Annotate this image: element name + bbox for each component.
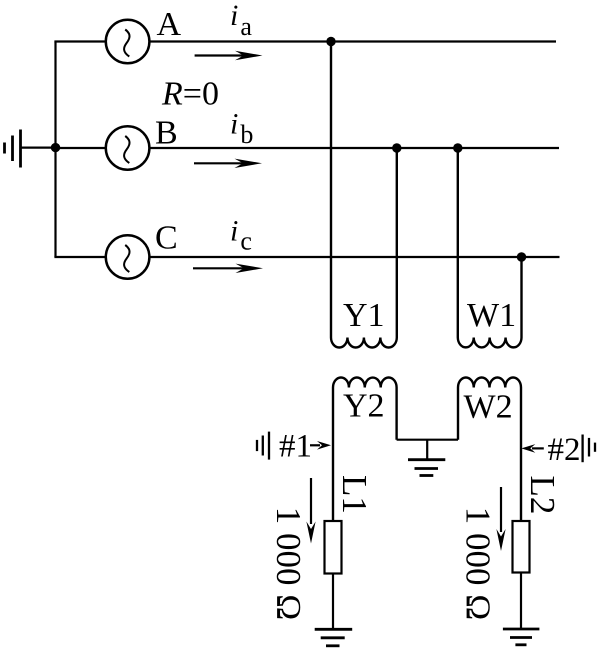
ground (secondary common) [408,460,445,476]
svg-text:1 000 Ω: 1 000 Ω [269,507,308,621]
arrow current ic [193,264,263,273]
probe marker #2 (mini ground bars) [583,435,595,463]
wire bus to source C [54,256,106,258]
winding Y2 (secondary coil) [333,378,397,522]
svg-text:L1: L1 [335,475,374,514]
svg-text:#2: #2 [548,432,581,468]
junction dot phase C / W1 [517,252,526,261]
svg-text:A: A [157,6,182,43]
source B (AC source) [106,126,150,170]
wire Y2 to W2 common [397,439,458,441]
winding W2 (secondary coil) [458,378,521,522]
winding W1 (wattmeter W1 coil) [458,148,522,347]
wire bus to source B [54,147,106,149]
arrow current ia [195,51,263,60]
wire neutral bus vertical [54,42,56,258]
arrow probe #2 [521,444,544,453]
junction dot neutral bus [51,143,60,152]
resistor L1 (1000 ohm load) [325,521,342,574]
ground (source neutral, left) [5,130,21,168]
arrow load current L2 [496,487,505,551]
wire phase C [149,256,559,258]
svg-text:W2: W2 [464,389,513,426]
arrow probe #1 [310,441,331,450]
svg-text:B: B [155,114,178,151]
source A (AC source) [106,20,150,64]
svg-text:Y1: Y1 [343,297,385,334]
resistor L2 (1000 ohm load) [513,521,530,573]
wire bus to source A [54,40,106,42]
ground (load L1) [315,629,353,646]
svg-text:Y2: Y2 [343,388,385,425]
junction dot phase A / Y1 [326,37,335,46]
junction dot phase B / Y1 [392,143,401,152]
svg-text:#1: #1 [279,429,312,465]
svg-text:C: C [155,219,178,256]
wire phase A [149,40,556,42]
svg-text:R=0: R=0 [161,76,219,113]
wire ground to neutral bus [21,147,56,149]
junction dot phase B / W1 [453,143,462,152]
probe marker #1 (mini ground bars) [257,432,269,460]
source C (AC source) [106,235,150,279]
wire common to ground stub [426,440,428,460]
wire phase B [149,147,559,149]
svg-text:1 000 Ω: 1 000 Ω [459,507,498,621]
wire L1 to ground [332,574,334,630]
svg-text:W1: W1 [467,297,516,334]
arrow current ib [194,159,262,168]
ground (load L2) [503,629,540,645]
winding Y1 (wattmeter Y1 coil) [331,42,397,348]
svg-text:L2: L2 [523,476,562,515]
arrow load current L1 [306,478,315,544]
wire L2 to ground [520,573,522,630]
